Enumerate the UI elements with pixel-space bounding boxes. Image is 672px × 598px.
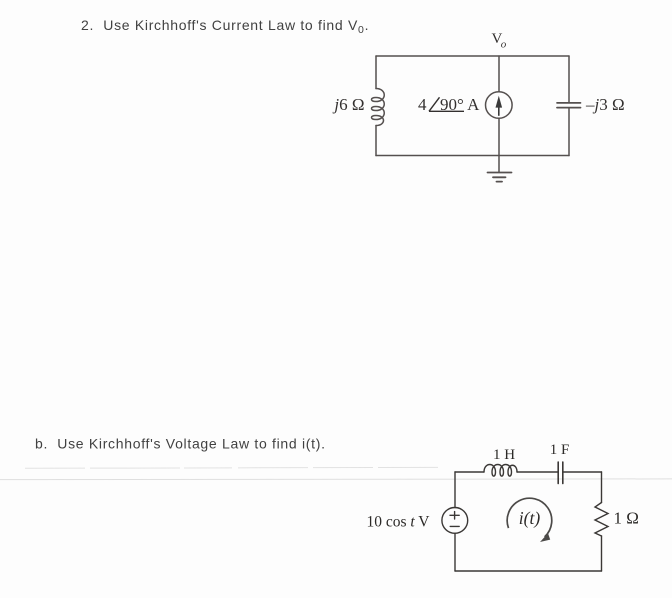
svg-text:i(t): i(t) (519, 508, 541, 528)
svg-text:1 F: 1 F (550, 442, 570, 458)
svg-text:4: 4 (418, 95, 427, 114)
svg-text:–j3 Ω: –j3 Ω (585, 95, 625, 114)
svg-text:j6 Ω: j6 Ω (332, 95, 364, 114)
svg-text:o: o (501, 39, 507, 51)
svg-text:1 Ω: 1 Ω (614, 509, 639, 528)
svg-text:b. Use Kirchhoff's Voltage La: b. Use Kirchhoff's Voltage Law to find i… (35, 436, 326, 452)
svg-text:1 H: 1 H (493, 447, 515, 463)
svg-text:10 cos t V: 10 cos t V (366, 514, 430, 531)
